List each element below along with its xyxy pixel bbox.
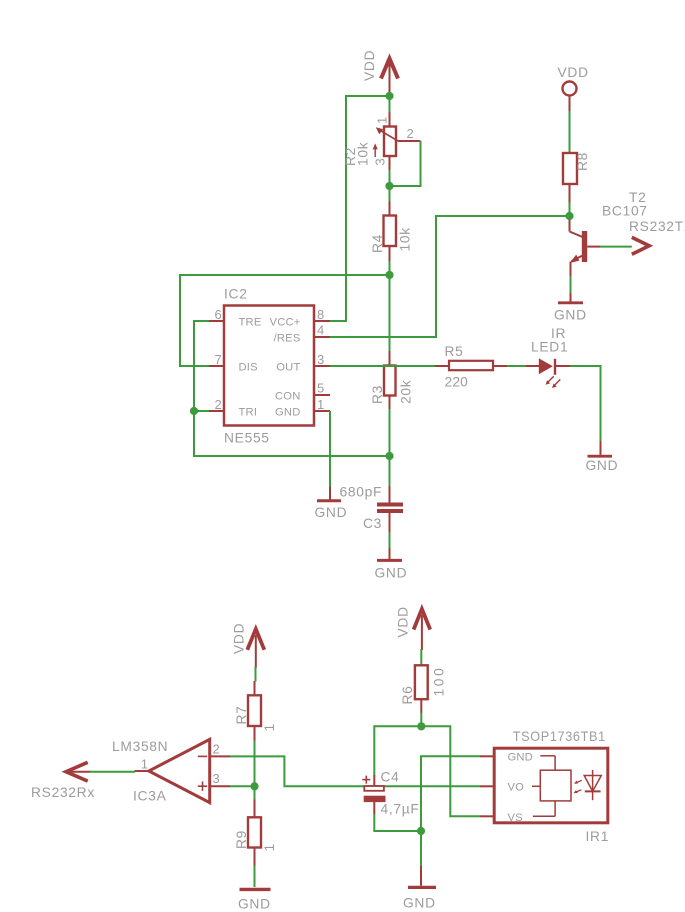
- wire junction D down to C3: [389, 455, 391, 487]
- svg-text:R9: R9: [234, 830, 249, 849]
- capacitor C3 680pF: [363, 486, 403, 533]
- wire LED1 cathode to ground: [570, 366, 601, 442]
- svg-text:GND: GND: [403, 896, 436, 911]
- svg-text:2: 2: [407, 126, 415, 141]
- wire R8 to node E: [569, 203, 571, 213]
- wire RS232Rx to op-amp output: [90, 771, 135, 773]
- op-amp/timer IC2 NE555: [209, 287, 330, 446]
- svg-text:IC2: IC2: [224, 287, 248, 302]
- svg-text:R5: R5: [445, 344, 464, 359]
- op-amp IC3A LM358N: [112, 739, 230, 804]
- svg-text:1: 1: [141, 757, 149, 772]
- svg-text:VCC+: VCC+: [270, 317, 301, 329]
- capacitor C4 4,7uF: [362, 770, 419, 817]
- svg-text:CON: CON: [275, 391, 300, 403]
- port RS232TX (arrow): [629, 219, 685, 254]
- ground GND (below R9): [238, 889, 271, 911]
- svg-text:RS232TX: RS232TX: [629, 219, 685, 234]
- wire pin 3 OUT to R5: [330, 365, 436, 367]
- wire VDD to junction A down: [389, 92, 391, 113]
- wire R2 pin3 to junction B to R4: [389, 170, 391, 202]
- svg-text:GND: GND: [586, 458, 619, 473]
- svg-text:1: 1: [317, 397, 325, 412]
- svg-text:10k: 10k: [398, 227, 413, 251]
- svg-text:R4: R4: [370, 234, 385, 253]
- svg-text:VDD: VDD: [396, 606, 411, 637]
- wire R6 to junction G: [420, 713, 422, 727]
- svg-text:RS232Rx: RS232Rx: [31, 785, 95, 800]
- svg-text:6: 6: [214, 307, 222, 322]
- svg-text:4: 4: [317, 323, 325, 338]
- diode IR LED1: [526, 326, 570, 388]
- svg-text:20k: 20k: [399, 380, 414, 404]
- svg-text:DIS: DIS: [239, 362, 258, 374]
- node B (junction): [385, 182, 393, 190]
- svg-text:1: 1: [375, 116, 390, 124]
- wire R2 wiper loop to junction B: [390, 141, 421, 186]
- resistor R5 220: [435, 344, 508, 390]
- node I (junction, op-amp +input divider): [250, 782, 258, 790]
- svg-text:220: 220: [445, 375, 469, 390]
- ground GND (below C3): [375, 548, 408, 581]
- wire junction G to TSOP VS: [421, 726, 480, 816]
- node D (junction): [385, 452, 393, 460]
- node C (junction): [385, 271, 393, 279]
- svg-text:GND: GND: [554, 308, 587, 323]
- port RS232Rx (arrow): [31, 762, 95, 800]
- svg-text:GND: GND: [238, 897, 271, 912]
- wire C4 minus to junction H: [374, 814, 421, 831]
- wire junction I to R9: [254, 789, 256, 800]
- resistor R4 10k: [370, 201, 413, 262]
- wire VDD to R7: [255, 667, 257, 682]
- IC IR1 TSOP1736TB1 (IR receiver): [480, 729, 609, 844]
- wire R4 to junction C to R3: [389, 261, 391, 352]
- svg-text:VDD: VDD: [558, 65, 589, 80]
- potentiometer R2 10k: [343, 112, 421, 171]
- svg-text:/RES: /RES: [274, 333, 301, 345]
- svg-text:GND: GND: [375, 566, 408, 581]
- wire junction F to pin 2 TRI: [194, 410, 210, 412]
- svg-text:R7: R7: [234, 705, 249, 724]
- svg-text:1: 1: [262, 843, 277, 851]
- svg-text:3: 3: [317, 352, 325, 367]
- svg-text:2: 2: [214, 397, 222, 412]
- svg-text:LED1: LED1: [531, 340, 568, 355]
- ground GND (T2 emitter): [554, 293, 587, 323]
- svg-text:C4: C4: [381, 770, 400, 785]
- svg-text:100: 100: [432, 668, 447, 697]
- svg-text:C3: C3: [363, 516, 382, 531]
- node G (junction): [417, 722, 425, 730]
- svg-text:7: 7: [214, 352, 222, 367]
- wire VDD circle to R8: [569, 111, 571, 154]
- svg-text:1: 1: [262, 723, 277, 731]
- wire op-amp pin 3 to junction I: [230, 785, 255, 787]
- svg-text:GND: GND: [315, 505, 348, 520]
- resistor R8: [563, 152, 590, 203]
- wire R3 to junction D: [389, 409, 391, 487]
- svg-text:TSOP1736TB1: TSOP1736TB1: [513, 729, 606, 744]
- ground GND (below LED1): [586, 441, 619, 473]
- svg-text:VO: VO: [508, 782, 525, 794]
- svg-text:3: 3: [373, 158, 388, 166]
- wire pin 4 /RES to transistor collector node E: [330, 216, 566, 337]
- svg-text:BC107: BC107: [602, 204, 648, 219]
- svg-text:IR1: IR1: [586, 829, 610, 844]
- wire pin 6 TRE / pin 2 TRI left net to junction D: [194, 321, 390, 456]
- wire T2 emitter to ground: [570, 276, 572, 294]
- wire junction C to pin 7 DIS: [180, 275, 390, 366]
- transistor T2 BC107: [570, 190, 648, 277]
- wire R9 to ground: [254, 866, 256, 888]
- power VDD (arrow, above R7): [232, 623, 265, 668]
- svg-text:TRI: TRI: [239, 407, 258, 419]
- wire C3 bottom to ground: [389, 532, 391, 549]
- power VDD (arrow, above R6): [396, 606, 431, 650]
- svg-text:VDD: VDD: [362, 50, 377, 81]
- resistor R7 1: [234, 681, 277, 741]
- svg-text:R3: R3: [370, 385, 385, 404]
- svg-text:5: 5: [317, 381, 325, 396]
- svg-text:3: 3: [213, 771, 221, 786]
- node F (junction): [190, 407, 198, 415]
- svg-text:OUT: OUT: [276, 362, 300, 374]
- power VDD (circle symbol, top right): [558, 65, 589, 112]
- svg-text:VS: VS: [508, 812, 523, 824]
- wire TSOP GND pin to junction H: [421, 756, 481, 831]
- svg-text:GND: GND: [275, 407, 300, 419]
- svg-text:GND: GND: [508, 752, 533, 764]
- resistor R9 1: [234, 800, 277, 867]
- svg-text:680pF: 680pF: [340, 485, 383, 500]
- svg-text:8: 8: [317, 307, 325, 322]
- svg-text:4,7µF: 4,7µF: [381, 802, 420, 817]
- wire R7 to junction I: [254, 741, 256, 784]
- resistor R6 100: [400, 665, 447, 713]
- svg-text:TRE: TRE: [239, 317, 262, 329]
- wire T2 base to RS232TX port: [600, 246, 632, 248]
- ground GND (pin 1 of IC2): [315, 487, 348, 521]
- svg-text:R8: R8: [575, 152, 590, 171]
- svg-text:10k: 10k: [356, 142, 371, 166]
- svg-text:LM358N: LM358N: [112, 739, 168, 754]
- svg-text:R6: R6: [400, 685, 415, 704]
- wire R5 to LED1: [507, 365, 527, 367]
- wire VDD to R6: [420, 649, 422, 666]
- resistor R3 20k: [370, 351, 414, 410]
- svg-text:2: 2: [213, 742, 221, 757]
- node E (junction): [565, 212, 573, 220]
- svg-text:IC3A: IC3A: [133, 789, 167, 804]
- svg-text:VDD: VDD: [232, 623, 247, 654]
- node A (junction): [385, 92, 393, 100]
- wire pin 1 GND down: [329, 411, 331, 487]
- wire junction A to pin 8 VCC+: [330, 96, 390, 321]
- svg-text:NE555: NE555: [224, 431, 270, 446]
- power VDD (top, arrow symbol): [362, 50, 398, 93]
- wire junction H to ground: [420, 831, 422, 867]
- wire junction G to C4 plus: [374, 726, 421, 775]
- wire op-amp pin 2 to TSOP VO: [230, 756, 481, 786]
- ground GND (below C4/TSOP): [403, 866, 436, 911]
- node H (junction): [417, 827, 425, 835]
